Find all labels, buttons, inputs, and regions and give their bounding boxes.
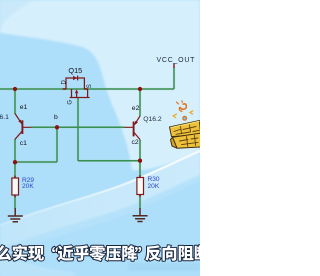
svg-text:D: D: [61, 80, 67, 85]
svg-text:G: G: [67, 100, 73, 105]
svg-text:S: S: [87, 84, 93, 88]
